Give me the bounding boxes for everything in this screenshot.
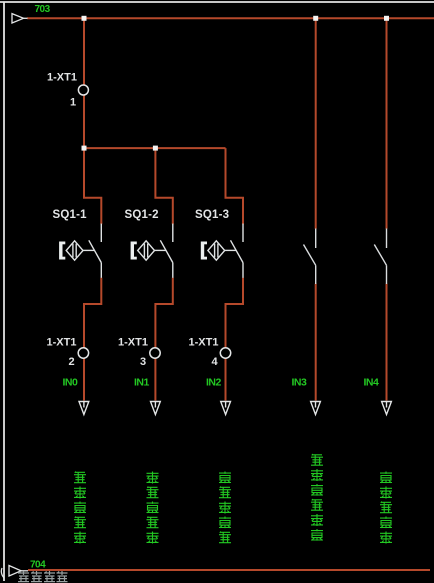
terminal 1-XT1 pin2 circle <box>78 348 88 358</box>
terminal 1-XT1 pin4 circle <box>220 348 230 358</box>
junction on bus at branch1 <box>82 16 87 21</box>
switch SQ1-1 <box>59 224 101 278</box>
svg-text:IN2: IN2 <box>206 377 222 389</box>
net arrow 704 <box>1 566 28 579</box>
svg-text:1: 1 <box>70 97 76 109</box>
svg-text:SQ1-2: SQ1-2 <box>125 209 159 221</box>
sheet arrow IN1 <box>151 402 161 415</box>
svg-text:IN1: IN1 <box>134 377 150 389</box>
wire 704 bottom bus <box>28 569 430 571</box>
svg-text:703: 703 <box>35 4 51 15</box>
svg-text:704: 704 <box>30 560 46 571</box>
switch SQ1-2 <box>131 224 173 278</box>
wire 703 top bus <box>27 17 434 19</box>
wire SQ1-1 path <box>84 148 101 400</box>
wire SQ1-2 path <box>155 148 172 400</box>
contact branch 5 <box>374 229 386 285</box>
junction row at branch1 <box>82 146 87 151</box>
function label column 1 <box>74 472 86 544</box>
sheet arrow IN0 <box>79 402 89 415</box>
wire SQ1-3 path <box>226 148 244 400</box>
wire branch 5 <box>386 18 388 400</box>
svg-text:2: 2 <box>69 356 75 368</box>
svg-text:1-XT1: 1-XT1 <box>47 337 77 349</box>
wire branch 4 <box>315 18 317 400</box>
svg-text:1-XT1: 1-XT1 <box>47 72 77 84</box>
svg-text:3: 3 <box>140 356 146 368</box>
contact branch 4 <box>304 229 316 285</box>
terminal 1-XT1 pin1 circle <box>78 85 88 95</box>
junction row at branch2 <box>153 146 158 151</box>
net arrow 703 <box>12 14 28 23</box>
svg-text:IN3: IN3 <box>292 377 308 389</box>
sheet arrow IN2 <box>221 402 231 415</box>
svg-text:1-XT1: 1-XT1 <box>189 337 219 349</box>
function label column 5 <box>380 472 392 544</box>
svg-text:1-XT1: 1-XT1 <box>118 337 148 349</box>
function label column 4 <box>311 454 323 541</box>
wire branch row horizontal <box>84 147 226 149</box>
function label column 2 <box>147 472 159 544</box>
sheet arrow IN4 <box>382 402 392 415</box>
svg-text:SQ1-1: SQ1-1 <box>53 209 88 221</box>
svg-text:SQ1-3: SQ1-3 <box>195 209 229 221</box>
svg-text:4: 4 <box>212 356 219 368</box>
svg-text:IN4: IN4 <box>364 377 380 389</box>
wire branch 1 vertical <box>83 18 85 148</box>
svg-text:IN0: IN0 <box>63 377 79 389</box>
junction on bus at branch5 <box>384 16 389 21</box>
watermark text <box>18 571 68 582</box>
sheet arrow IN3 <box>311 402 321 415</box>
switch SQ1-3 <box>201 224 243 278</box>
terminal 1-XT1 pin3 circle <box>150 348 160 358</box>
junction on bus at branch4 <box>313 16 318 21</box>
function label column 3 <box>219 472 231 543</box>
